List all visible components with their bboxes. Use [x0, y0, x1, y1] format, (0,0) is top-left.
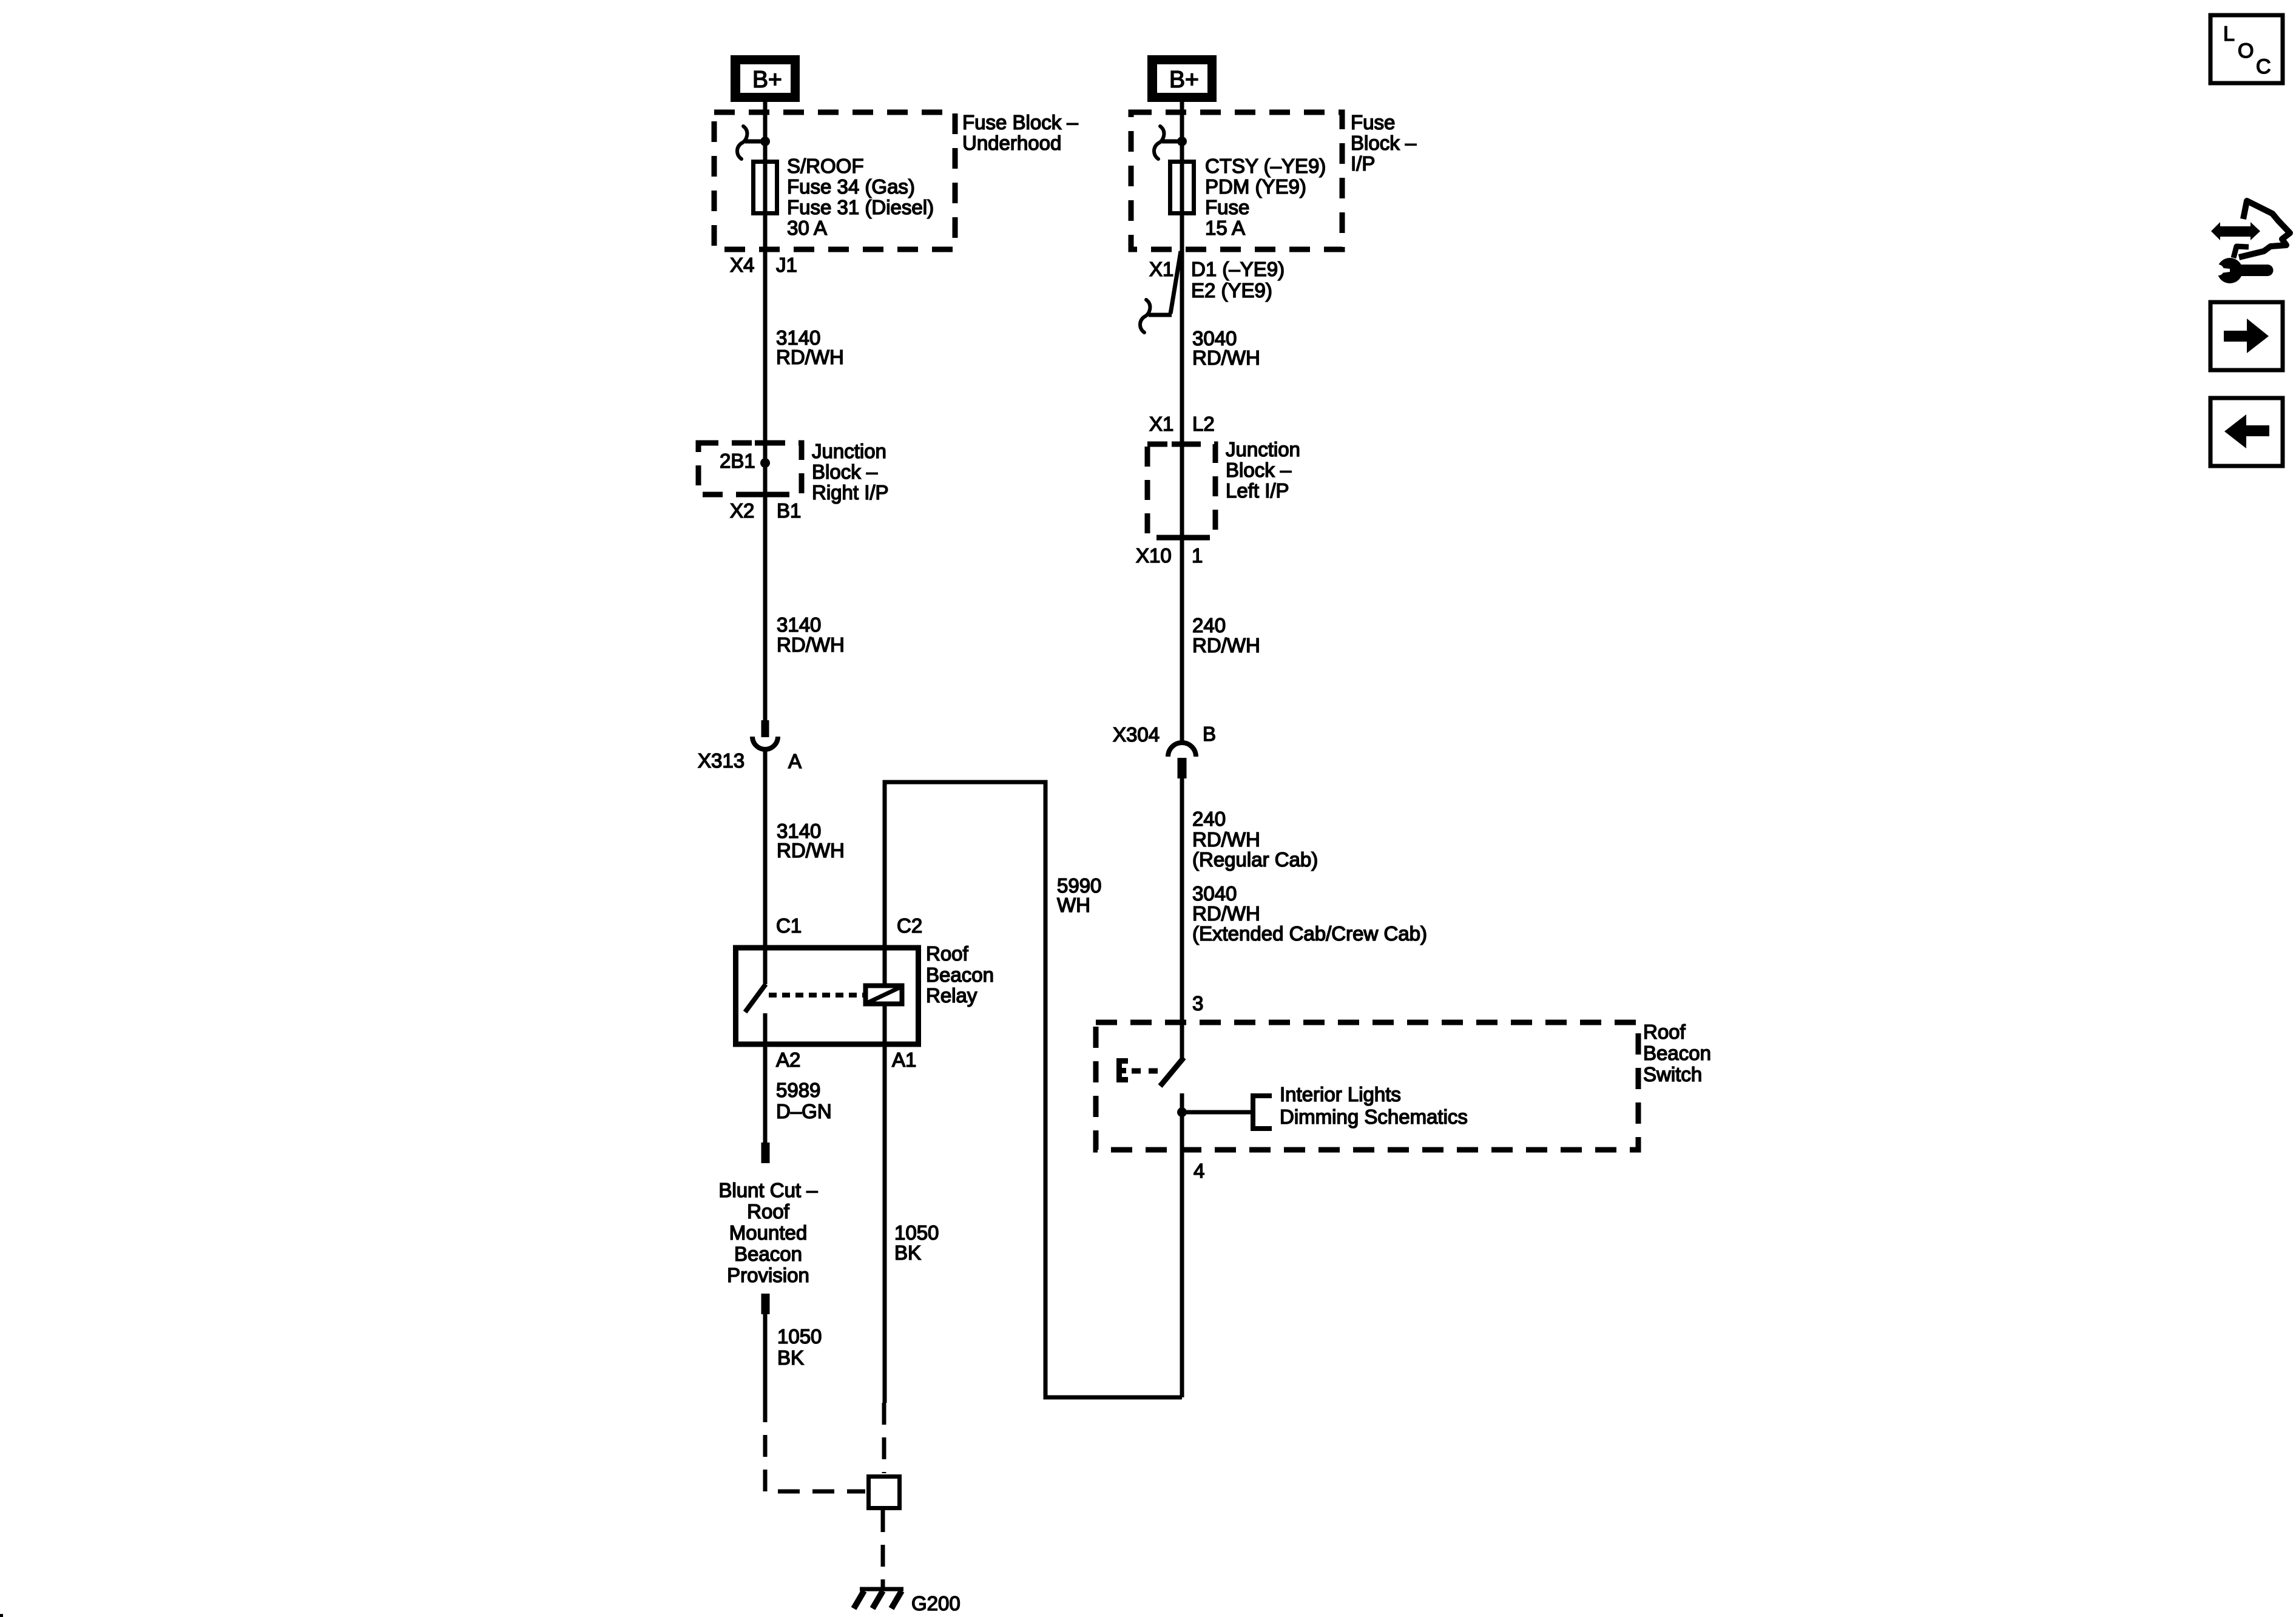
svg-text:Junction: Junction — [1226, 438, 1300, 461]
svg-text:RD/WH: RD/WH — [1192, 634, 1260, 657]
label wire 5990 WH — [1057, 874, 1101, 916]
svg-text:Block –: Block – — [812, 461, 878, 483]
wire from left B+ to fuse S/ROOF — [763, 102, 768, 161]
relay terminal labels C1 / C2 — [776, 914, 922, 937]
svg-text:Roof: Roof — [1643, 1021, 1686, 1043]
relay coil C2 riser inside box — [883, 948, 887, 985]
label wire 1050 BK (right) — [894, 1221, 939, 1264]
fuse S/ROOF 30A symbol — [754, 161, 777, 214]
wire 3140 RD/WH junction block to X313 — [763, 495, 768, 720]
clip tick wire to junction — [745, 140, 765, 144]
Junction Block - Right I/P dashed box — [698, 443, 802, 495]
blunt cut end cap (upper) — [761, 1143, 770, 1163]
wire 3140 RD/WH X313 to relay C1 — [763, 751, 768, 948]
fuse clip symbol (take-out) — [1140, 300, 1150, 333]
navigation box: back arrow — [2210, 398, 2283, 466]
svg-text:Fuse Block –: Fuse Block – — [962, 111, 1078, 133]
svg-text:I/P: I/P — [1351, 152, 1375, 175]
svg-text:Underhood: Underhood — [962, 132, 1061, 154]
svg-text:Fuse: Fuse — [1351, 111, 1395, 133]
wire through junction block with boundary ticks — [755, 441, 775, 446]
node: junction dot at left fuse feed — [760, 137, 770, 146]
svg-text:S/ROOF: S/ROOF — [787, 155, 864, 177]
wire through junction block with boundary ticks — [1172, 442, 1192, 447]
page artifact dot (bottom-left) — [0, 1614, 3, 1617]
pin labels X1 / L2 — [1149, 413, 1215, 435]
label fuse S/ROOF value — [787, 155, 934, 239]
svg-text:Relay: Relay — [926, 984, 977, 1007]
label Blunt Cut - Roof Mounted Beacon Provision — [718, 1179, 818, 1286]
label X304 / B — [1113, 723, 1216, 746]
label Roof Beacon Switch — [1643, 1021, 1711, 1085]
label Fuse Block - I/P — [1351, 111, 1417, 175]
Roof Beacon Relay box — [736, 948, 919, 1044]
svg-text:3040: 3040 — [1192, 882, 1237, 905]
switch actuator label E — [1116, 1058, 1128, 1082]
pin labels X2 / B1 — [730, 499, 801, 522]
svg-text:Fuse 31 (Diesel): Fuse 31 (Diesel) — [787, 196, 934, 218]
svg-text:Left I/P: Left I/P — [1226, 479, 1289, 502]
svg-text:L: L — [2223, 22, 2235, 46]
svg-text:X304: X304 — [1113, 723, 1160, 746]
Fuse Block - Underhood dashed box — [714, 112, 955, 249]
svg-text:D–GN: D–GN — [776, 1100, 832, 1122]
svg-text:RD/WH: RD/WH — [1192, 902, 1260, 925]
svg-text:D1 (–YE9): D1 (–YE9) — [1191, 258, 1285, 280]
svg-text:Blunt Cut –: Blunt Cut – — [718, 1179, 818, 1201]
Roof Beacon Switch dashed box — [1096, 1022, 1638, 1150]
svg-text:Fuse 34 (Gas): Fuse 34 (Gas) — [787, 175, 915, 198]
connector X304 pin B (female dome + male pin below) — [1168, 743, 1196, 778]
label wire 240 RD/WH (Regular Cab) — [1192, 808, 1318, 871]
relay coil box — [866, 986, 902, 1004]
svg-text:BK: BK — [777, 1346, 804, 1369]
svg-text:(Extended Cab/Crew Cab): (Extended Cab/Crew Cab) — [1192, 922, 1427, 945]
adjust/repair icon: wrench — [2212, 258, 2274, 283]
relay switch blade (open) — [745, 984, 766, 1012]
svg-text:B+: B+ — [752, 67, 782, 93]
pin labels X4 / J1 — [730, 254, 797, 276]
fuse CTSY/PDM 15A symbol — [1170, 161, 1194, 214]
svg-text:(Regular Cab): (Regular Cab) — [1192, 848, 1318, 871]
svg-text:A1: A1 — [892, 1048, 916, 1071]
svg-text:1050: 1050 — [894, 1221, 939, 1244]
svg-text:X1: X1 — [1149, 413, 1173, 435]
label wire 3040 RD/WH (upper) — [1192, 327, 1260, 369]
node 2B1 dot — [760, 458, 770, 468]
hidden wire (dashed) to ground eyelet — [765, 1400, 865, 1491]
relay terminal labels A2 / A1 — [776, 1048, 916, 1071]
svg-text:RD/WH: RD/WH — [777, 633, 845, 656]
blunt cut end cap (lower) — [761, 1294, 770, 1314]
svg-text:B1: B1 — [777, 499, 801, 522]
svg-text:Junction: Junction — [812, 440, 886, 462]
wire 240 RD/WH junction block to X304 — [1180, 538, 1184, 744]
fuse clip symbol (left fuse block) — [737, 126, 747, 159]
svg-text:Block –: Block – — [1351, 132, 1417, 154]
adjust/repair icon: double arrow — [2211, 222, 2260, 240]
svg-text:X2: X2 — [730, 499, 754, 522]
svg-text:15 A: 15 A — [1205, 217, 1245, 239]
svg-text:1: 1 — [1192, 544, 1203, 567]
svg-text:3140: 3140 — [777, 613, 821, 636]
svg-text:Provision: Provision — [727, 1264, 809, 1286]
wire 240/3040 RD/WH X304 to switch — [1180, 778, 1184, 1022]
adjust/repair icon: hand outline — [2239, 201, 2290, 257]
wire 3140 RD/WH from fuse block to junction block — [763, 214, 768, 443]
svg-text:4: 4 — [1194, 1160, 1204, 1182]
svg-text:Beacon: Beacon — [734, 1243, 802, 1265]
Junction Block - Left I/P dashed box — [1147, 444, 1215, 538]
label wire 3140 RD/WH (lower) — [777, 820, 845, 862]
wire from dot to dimming bracket — [1182, 1110, 1252, 1115]
label Roof Beacon Relay — [926, 942, 994, 1007]
svg-text:A2: A2 — [776, 1048, 800, 1071]
svg-text:Fuse: Fuse — [1205, 196, 1249, 218]
svg-text:240: 240 — [1192, 808, 1226, 830]
navigation box: forward arrow — [2210, 302, 2283, 370]
label Junction Block - Left I/P — [1226, 438, 1300, 502]
svg-text:Dimming Schematics: Dimming Schematics — [1280, 1106, 1468, 1128]
off-page bracket to Interior Lights Dimming — [1253, 1096, 1272, 1129]
svg-text:240: 240 — [1192, 614, 1226, 636]
svg-text:L2: L2 — [1192, 413, 1215, 435]
Fuse Block - I/P dashed box — [1131, 112, 1342, 249]
svg-text:X4: X4 — [730, 254, 754, 276]
svg-text:X313: X313 — [698, 749, 745, 772]
switch blade (open) — [1160, 1058, 1184, 1086]
clip tick wire to junction — [1162, 140, 1182, 144]
svg-text:Roof: Roof — [926, 942, 969, 965]
node: junction dot at right fuse feed — [1177, 137, 1187, 146]
svg-text:Interior Lights: Interior Lights — [1280, 1083, 1401, 1106]
ground eyelet terminal square — [869, 1477, 900, 1508]
clip tick wire — [1149, 313, 1172, 317]
wire 1050 BK below blunt cut — [763, 1313, 768, 1400]
relay coil diagonal — [868, 987, 902, 1002]
label Junction Block - Right I/P — [812, 440, 889, 504]
svg-text:RD/WH: RD/WH — [1192, 828, 1260, 851]
ground symbol G200 — [854, 1589, 903, 1609]
relay fixed contact stub to A2 — [763, 1013, 768, 1044]
relay actuation dashed link — [769, 993, 863, 998]
svg-text:Switch: Switch — [1643, 1063, 1702, 1085]
svg-text:O: O — [2238, 39, 2254, 62]
svg-text:Beacon: Beacon — [926, 964, 994, 986]
label Interior Lights Dimming Schematics — [1280, 1083, 1468, 1128]
label Fuse Block - Underhood — [962, 111, 1078, 154]
wire from switch pin 4 down — [1180, 1150, 1184, 1397]
B+ power symbol (right battery feed) — [1147, 55, 1217, 102]
wire from right B+ to fuse CTSY — [1180, 102, 1184, 161]
svg-text:Roof: Roof — [747, 1200, 790, 1223]
svg-text:BK: BK — [894, 1241, 921, 1264]
svg-text:G200: G200 — [911, 1592, 961, 1615]
svg-text:Right I/P: Right I/P — [812, 481, 889, 504]
fuse clip symbol (right fuse block) — [1154, 126, 1164, 159]
svg-text:WH: WH — [1057, 894, 1090, 916]
label X313 / A — [698, 749, 802, 772]
svg-text:C2: C2 — [897, 914, 922, 937]
label wire 3140 RD/WH (upper) — [776, 326, 844, 368]
relay coil stub to A1 — [883, 1004, 887, 1044]
svg-text:Block –: Block – — [1226, 459, 1292, 481]
svg-text:PDM (YE9): PDM (YE9) — [1205, 175, 1306, 198]
svg-text:B: B — [1203, 723, 1216, 745]
svg-text:A: A — [788, 750, 802, 772]
wire 5989 D-GN from relay A2 — [763, 1044, 768, 1144]
pin labels X1 / D1 / E2 — [1149, 258, 1285, 302]
svg-text:X10: X10 — [1136, 544, 1172, 567]
label wire 1050 BK (left) — [777, 1325, 822, 1369]
hidden wire (dashed) from A1 wire to eyelet — [882, 1403, 886, 1473]
svg-text:J1: J1 — [776, 254, 797, 276]
svg-text:5989: 5989 — [776, 1079, 820, 1101]
connector X313 pin A (male pin + female cup) — [752, 720, 778, 749]
wire 3040 RD/WH from fuse block to junction block — [1180, 214, 1184, 444]
svg-text:30 A: 30 A — [787, 217, 827, 239]
svg-text:1050: 1050 — [777, 1325, 822, 1348]
hidden wire (dashed) from eyelet to G200 — [881, 1510, 885, 1587]
svg-text:Mounted: Mounted — [729, 1221, 807, 1244]
svg-text:RD/WH: RD/WH — [776, 346, 844, 368]
node: dot on switch output — [1177, 1107, 1187, 1117]
svg-text:CTSY (–YE9): CTSY (–YE9) — [1205, 155, 1326, 177]
svg-text:3: 3 — [1192, 992, 1203, 1014]
svg-text:B+: B+ — [1169, 67, 1199, 93]
take-out branch diagonal to clip — [1170, 251, 1181, 314]
svg-text:RD/WH: RD/WH — [1192, 346, 1260, 369]
label fuse CTSY/PDM value — [1205, 155, 1326, 239]
svg-text:RD/WH: RD/WH — [777, 839, 845, 862]
wire from relay A1 down (1050 BK right) — [883, 1044, 887, 1403]
svg-text:Beacon: Beacon — [1643, 1042, 1711, 1064]
switch fixed contact stub — [1180, 1093, 1184, 1150]
label wire 3140 RD/WH (middle) — [777, 613, 845, 656]
LOC reference box — [2210, 15, 2283, 83]
label wire 5989 D-GN — [776, 1079, 832, 1122]
svg-text:C1: C1 — [776, 914, 802, 937]
switch pin 3 stub inside box — [1180, 1022, 1184, 1059]
svg-text:C: C — [2256, 55, 2271, 78]
wire 5990 WH: relay C2 riser, top run, drop, bottom run — [885, 782, 1182, 1397]
svg-text:E2 (YE9): E2 (YE9) — [1191, 279, 1272, 302]
switch actuator dashed link — [1132, 1068, 1158, 1074]
B+ power symbol (left battery feed) — [731, 55, 800, 102]
label wire 3040 RD/WH (Extended Cab/Crew Cab) — [1192, 882, 1427, 945]
pin labels X10 / 1 — [1136, 544, 1203, 567]
svg-text:2B1: 2B1 — [720, 450, 755, 472]
svg-text:X1: X1 — [1149, 258, 1173, 280]
label wire 240 RD/WH (middle) — [1192, 614, 1260, 657]
relay switch C1 stub — [763, 948, 768, 984]
